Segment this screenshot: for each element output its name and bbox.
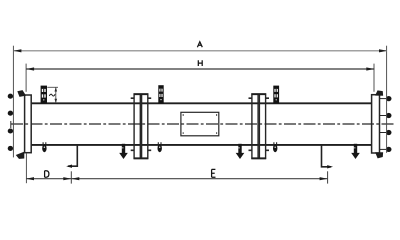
top nozzle N1 (hatched) xyxy=(41,86,47,104)
centerline end tick xyxy=(10,121,12,128)
drain arrow 3 xyxy=(351,144,360,159)
nozzle N1 height dimension xyxy=(47,87,58,103)
bottom plug P3 xyxy=(273,142,277,152)
dimension H extension lines xyxy=(25,64,27,92)
dimension D arrows xyxy=(26,177,34,180)
mid flange pair 1 bolts xyxy=(131,98,152,150)
mid flange pair 1 plate a xyxy=(134,94,140,159)
right stud bolt 1 xyxy=(380,98,387,100)
right flange bottom gusset xyxy=(376,153,383,158)
left flange top gusset xyxy=(18,91,25,97)
right outlet elbow with flow arrow xyxy=(322,145,332,167)
bottom plug P1 xyxy=(42,142,46,152)
left stud bolt 1 xyxy=(8,94,13,99)
mid flange pair 2 plate b xyxy=(259,94,265,159)
mid flange pair 1 plate b xyxy=(142,94,148,159)
left stud bolt 3 xyxy=(8,128,13,133)
mid flange pair 2 plate a xyxy=(252,94,258,159)
left stud bolt 2 xyxy=(8,111,13,116)
dimension D line xyxy=(26,178,71,180)
left stud bolt 4 xyxy=(8,146,13,151)
top nozzle N3 (hatched) xyxy=(273,86,279,104)
mid flange pair cap bars xyxy=(134,94,267,158)
dimension D label xyxy=(45,171,49,177)
dimension A label xyxy=(197,42,202,47)
centerline (shell axis, dash-dot) xyxy=(11,123,394,125)
left outlet elbow with flow arrow xyxy=(68,145,77,166)
dimension D/E extension lines xyxy=(25,153,27,183)
left tubesheet flange plate xyxy=(25,95,32,153)
drain arrow 2 xyxy=(236,144,245,159)
dimension E label xyxy=(212,169,216,177)
shell body xyxy=(31,103,372,145)
left flange bottom gusset xyxy=(17,152,24,158)
mid flange pair 2 bolts xyxy=(249,98,270,150)
right stud bolt 4 xyxy=(380,148,387,150)
nozzle N1 dimension squiggle label xyxy=(49,94,55,96)
bottom plug P2 xyxy=(158,142,162,152)
dimension A arrows xyxy=(13,49,21,52)
drain arrow 1 xyxy=(119,144,128,159)
dimension E arrows xyxy=(71,177,79,180)
dimension A extension lines xyxy=(12,46,14,158)
right tubesheet flange plate xyxy=(372,95,380,153)
dimension E line xyxy=(71,178,327,180)
dimension H arrows xyxy=(26,67,34,70)
nameplate rectangle xyxy=(181,112,219,136)
dimension H label xyxy=(198,60,202,66)
right flange top gusset xyxy=(376,91,383,95)
right stud bolt 3 xyxy=(380,132,387,134)
top nozzle N2 (hatched) xyxy=(158,85,163,103)
dimension A line xyxy=(13,50,387,52)
right stud bolt 2 xyxy=(380,115,387,117)
dimension H line xyxy=(26,68,374,70)
nameplate corner marks xyxy=(183,114,216,133)
